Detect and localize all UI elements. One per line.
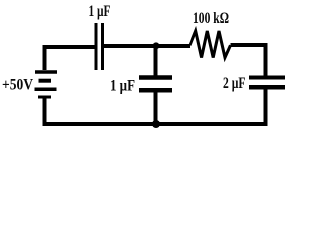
battery V1 long plate 3 (35, 87, 57, 91)
wire bottom-right rail + right rail lower segment (156, 90, 266, 125)
battery V1 +50V long plate 1 (35, 70, 57, 74)
svg-text:1 µF: 1 µF (110, 78, 135, 95)
battery V1 short plate 4 (38, 96, 51, 99)
svg-text:100 kΩ: 100 kΩ (193, 10, 229, 27)
wire left rail lower segment + bottom-left rail (45, 99, 157, 125)
wire middle branch lower (154, 92, 158, 124)
capacitor C3 2uF top plate (249, 76, 285, 80)
svg-text:1 µF: 1 µF (89, 3, 111, 20)
capacitor C2 1uF top plate (139, 75, 172, 80)
capacitor C1 1uF left plate (95, 23, 98, 70)
node junction dot (top) (153, 42, 160, 49)
svg-text:2 µF: 2 µF (223, 75, 246, 92)
capacitor C2 1uF bottom plate (139, 88, 172, 93)
wire top-middle segment (104, 44, 190, 48)
wire top-right segment with right rail upper segment (231, 45, 266, 76)
wire top-left rail with left rail upper segment (45, 47, 95, 70)
svg-text:+50V: +50V (2, 77, 33, 94)
resistor R1 100k zigzag (190, 31, 231, 58)
battery V1 short plate 2 (39, 79, 52, 83)
capacitor C1 1uF right plate (101, 23, 104, 70)
node junction dot (bottom) (152, 120, 160, 128)
wire middle branch upper (154, 45, 158, 76)
capacitor C3 2uF bottom plate (249, 85, 285, 90)
